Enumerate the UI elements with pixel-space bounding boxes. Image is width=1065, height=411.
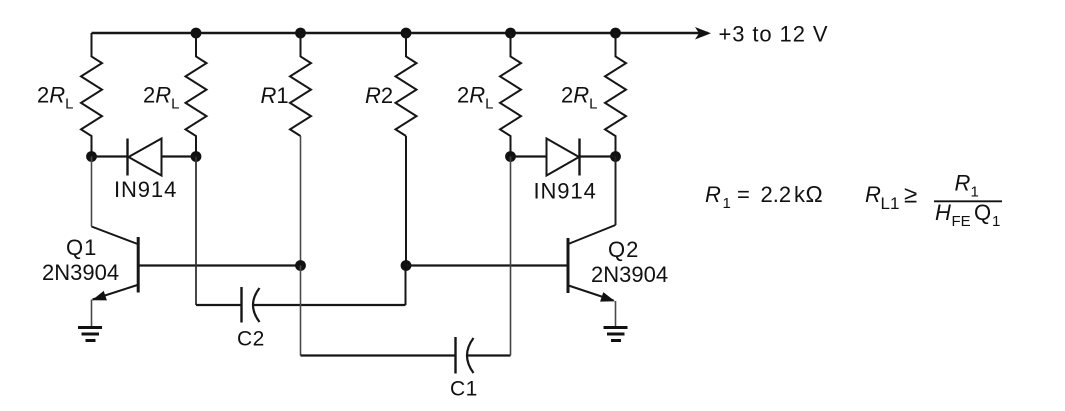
svg-text:R: R <box>705 182 721 207</box>
svg-text:R: R <box>865 182 881 207</box>
wire: node D down to Q2 collector <box>615 157 617 226</box>
resistor 2RL (second, diode feed) <box>186 33 207 157</box>
node: right diode row dots <box>505 151 516 162</box>
wire: Q2 emitter to ground <box>615 301 617 328</box>
svg-text:2N3904: 2N3904 <box>591 262 668 287</box>
svg-text:H: H <box>935 200 951 225</box>
node: left diode row dots <box>86 151 97 162</box>
svg-text:R1: R1 <box>261 83 289 108</box>
svg-text:Q: Q <box>974 200 991 225</box>
svg-text:Q2: Q2 <box>608 237 639 262</box>
wire: node B down to C2 <box>195 157 197 306</box>
node: Q2 base / R2 junction <box>401 260 412 271</box>
wire: R1 node down to C1 <box>300 266 302 356</box>
transistor Q2 2N3904 <box>567 225 616 245</box>
svg-text:C2: C2 <box>237 328 265 351</box>
svg-text:+3 to 12 V: +3 to 12 V <box>719 22 829 47</box>
svg-text:R: R <box>955 171 971 196</box>
svg-text:Ω: Ω <box>806 181 823 207</box>
wire: Q2 base line <box>406 264 567 266</box>
ground (Q1) <box>78 326 102 329</box>
resistor R2 <box>396 33 417 136</box>
node: rail junction dots <box>191 28 202 39</box>
ground (Q2) <box>604 326 628 329</box>
wire R2 bottom to base node <box>405 136 407 266</box>
svg-text:C1: C1 <box>450 378 478 401</box>
transistor Q1 2N3904 <box>92 227 140 245</box>
resistor R1 <box>290 33 311 136</box>
resistor 2RL (fourth, Q2 collector load) <box>605 33 626 157</box>
svg-text:k: k <box>794 182 806 207</box>
wire: C1 right up to node C <box>468 354 511 356</box>
wire: C2 right to R2/base node <box>254 304 406 306</box>
wire: +V supply rail <box>92 32 709 34</box>
wire: node A down to Q1 collector <box>91 157 93 227</box>
svg-text:IN914: IN914 <box>534 179 597 204</box>
svg-text:IN914: IN914 <box>114 177 177 202</box>
svg-text:1: 1 <box>971 184 979 201</box>
svg-text:Q1: Q1 <box>66 235 97 260</box>
svg-text:R2: R2 <box>365 83 393 108</box>
node: Q1 base / R1 junction <box>295 260 306 271</box>
resistor 2RL (third, diode feed right) <box>500 33 521 157</box>
svg-text:2N3904: 2N3904 <box>42 260 119 285</box>
equation RL1 >= R1 / (HFE Q1) <box>865 171 1002 231</box>
capacitor C2 <box>240 287 242 323</box>
svg-text:=: = <box>737 182 750 207</box>
supply arrowhead <box>695 27 711 40</box>
svg-text:2.2: 2.2 <box>761 182 792 207</box>
wire: Q1 base line to R1 node <box>139 264 301 266</box>
equation R1 = 2.2 kOhm <box>705 181 823 212</box>
svg-text:L1: L1 <box>881 194 900 213</box>
diode D1 IN914 (left, cathode left) <box>92 155 128 157</box>
svg-text:1: 1 <box>992 213 1000 230</box>
svg-text:≥: ≥ <box>904 182 917 209</box>
diode D2 IN914 (right, cathode right) <box>511 155 547 157</box>
capacitor C1 <box>454 337 456 374</box>
svg-text:FE: FE <box>952 213 971 230</box>
resistor 2RL (first, Q1 collector load) <box>81 33 102 157</box>
svg-text:1: 1 <box>723 195 731 212</box>
wire R1 bottom to base node <box>300 136 302 266</box>
wire: Q1 emitter to ground <box>91 300 93 328</box>
